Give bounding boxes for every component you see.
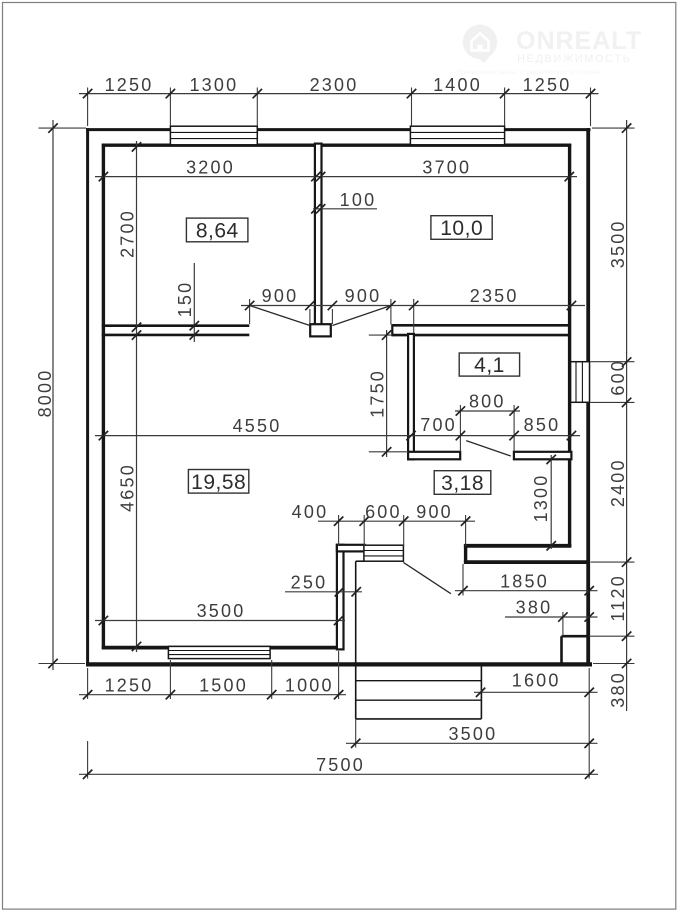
svg-text:1400: 1400 [433, 75, 482, 95]
svg-text:1300: 1300 [189, 75, 238, 95]
dim 3200 ticks [99, 172, 108, 181]
wall: bottom exterior inner line [102, 646, 342, 650]
svg-text:1600: 1600 [512, 671, 561, 691]
dim chain right extension lines [592, 127, 635, 129]
wall: partition below room 10,0 upper line [392, 324, 570, 327]
svg-text:1000: 1000 [285, 676, 334, 696]
dim 380 line [505, 616, 598, 618]
room label 19,58 [188, 470, 248, 494]
dim row 900-900-2350 ticks [245, 301, 254, 310]
dim 3500 inner line [95, 620, 345, 622]
dim 3500 inner ticks [99, 616, 108, 625]
logo ONREALT watermark pin icon [463, 25, 497, 63]
wall: left exterior outer line [86, 128, 89, 666]
dim 1300 line [550, 455, 552, 549]
dim 3500 bottom extension left [355, 719, 357, 748]
wall: cap joining 3,18 bottom walls [464, 544, 467, 564]
dim row 4550-700-850 line [95, 435, 580, 437]
porch step line 1 [356, 680, 482, 682]
dim 8000 extension top [39, 127, 87, 129]
wall: room 4,1 left wall [408, 334, 414, 459]
svg-text:4550: 4550 [233, 416, 282, 436]
door swing room 3,18 [466, 441, 511, 456]
dim 8000 ticks [48, 123, 57, 132]
porch right edge [480, 666, 482, 719]
svg-text:4650: 4650 [118, 463, 138, 512]
dim 1300 ticks [547, 455, 556, 464]
entrance door leaf-frame [364, 545, 404, 561]
dim 3200-3700 line [95, 176, 577, 178]
porch top connector to entrance door [356, 560, 365, 562]
dim 8000 line [52, 120, 54, 670]
svg-text:ONREALT: ONREALT [516, 27, 642, 55]
room label 10,0 [431, 216, 492, 240]
svg-text:2350: 2350 [470, 286, 519, 306]
window W3 right wall [571, 362, 590, 403]
dim 1750 line [386, 330, 388, 457]
dim chain top line [79, 93, 599, 95]
svg-text:1300: 1300 [531, 474, 551, 523]
wall: room 3,18 top wall left of door [408, 452, 460, 460]
svg-text:2700: 2700 [118, 209, 138, 258]
dim chain top extension lines [87, 88, 89, 127]
porch left edge [355, 561, 357, 719]
dim 1750 extensions [369, 334, 393, 336]
dim chain right ticks [622, 123, 631, 132]
wall: right exterior outer line [586, 128, 590, 666]
wall: offset exterior wall below 3,18 [464, 560, 590, 564]
room label 4,1 [459, 353, 519, 376]
svg-text:380: 380 [516, 598, 553, 618]
dim 1600 extension right [588, 668, 590, 779]
dim 380 extension [562, 612, 564, 636]
window W1 top wall left [170, 126, 257, 145]
dim 4650 ticks [132, 330, 141, 339]
svg-text:700: 700 [420, 415, 457, 435]
svg-text:850: 850 [524, 415, 561, 435]
svg-text:1250: 1250 [105, 676, 154, 696]
svg-text:900: 900 [345, 286, 382, 306]
svg-text:3200: 3200 [186, 158, 235, 178]
wall: vestibule right wall of room 19,58 [337, 545, 344, 650]
dim 1600 ticks [476, 688, 485, 697]
dim chain bottom line [79, 694, 346, 696]
svg-text:4,1: 4,1 [474, 354, 505, 377]
wall: top exterior inner line [102, 143, 571, 146]
dim 100 line [313, 208, 377, 210]
svg-text:250: 250 [291, 572, 328, 592]
svg-text:3500: 3500 [448, 724, 497, 744]
dim 3500 bottom ticks [351, 739, 360, 748]
dim 800 extensions [459, 405, 461, 452]
porch step line 2 [356, 699, 482, 701]
svg-text:1850: 1850 [500, 571, 549, 591]
window W2 top wall right [410, 126, 504, 145]
svg-text:600: 600 [608, 359, 628, 396]
svg-text:400: 400 [292, 502, 329, 522]
dim chain top ticks [83, 89, 92, 98]
dim 2700 ticks [132, 142, 141, 151]
svg-text:600: 600 [365, 502, 402, 522]
svg-text:3700: 3700 [422, 158, 471, 178]
svg-text:900: 900 [262, 286, 299, 306]
svg-text:3500: 3500 [608, 219, 628, 268]
room label 3,18 [434, 471, 491, 495]
dim 100 ticks [311, 204, 320, 213]
dim chain bottom extension lines [87, 668, 89, 699]
dim 2700-4650 line [136, 141, 138, 652]
dim 800 line [455, 410, 520, 412]
svg-text:8,64: 8,64 [196, 220, 239, 243]
dim 1850 line [455, 590, 598, 592]
window W4 bottom wall [168, 646, 270, 658]
svg-text:8000: 8000 [35, 369, 55, 418]
dim 150 line [193, 263, 195, 342]
wall: chimney notch vertical [560, 636, 563, 663]
dim 7500 line [79, 773, 598, 775]
wall: vestibule top wall [337, 545, 365, 552]
dim row 900-900-2350 extensions [249, 299, 251, 324]
porch bottom edge [356, 718, 482, 720]
wall: partition between rooms 8,64 and 10,0 [315, 144, 322, 326]
wall: partition below room 10,0 left end cap [391, 324, 393, 336]
svg-text:100: 100 [340, 190, 377, 210]
wall: top exterior outer line [86, 128, 591, 131]
wall: bottom exterior outer line [86, 662, 592, 666]
svg-text:19,58: 19,58 [191, 471, 246, 494]
wall: partition below room 8,64 upper line [102, 324, 250, 327]
svg-text:10,0: 10,0 [440, 217, 483, 240]
svg-text:2400: 2400 [608, 458, 628, 507]
svg-text:7500: 7500 [316, 755, 365, 775]
dim 150 ticks [190, 321, 199, 330]
wall: door pillar at partition foot [310, 324, 331, 336]
wall: chimney notch horizontal [562, 635, 589, 638]
svg-text:1120: 1120 [608, 574, 628, 622]
dim 7500 ticks [83, 770, 92, 779]
svg-text:3500: 3500 [197, 601, 246, 621]
dim chain right line [626, 120, 628, 711]
dim 250 line [285, 591, 362, 593]
svg-text:1500: 1500 [199, 676, 248, 696]
dim 380 ticks [558, 612, 567, 621]
wall: room 3,18 bottom wall [464, 544, 572, 548]
dim row 900-900-2350 line [241, 305, 585, 307]
wall: left exterior inner line [102, 144, 105, 650]
dim 1600 line [474, 691, 598, 693]
svg-text:800: 800 [469, 391, 506, 411]
svg-text:2300: 2300 [310, 75, 359, 95]
dim 1750 ticks [382, 330, 391, 339]
dim row 400-600-900 ticks [334, 517, 343, 526]
svg-text:900: 900 [416, 502, 453, 522]
dim 1850 ticks [458, 586, 467, 595]
dim row 400-600-900 extensions [338, 515, 340, 546]
wall: partition below room 10,0 lower line [392, 334, 570, 337]
svg-text:1750: 1750 [368, 369, 388, 418]
wall: partition below room 8,64 lower line [102, 334, 250, 337]
svg-text:НЕДВИЖИМОСТЬ: НЕДВИЖИМОСТЬ [517, 53, 631, 65]
dim 250 ticks [335, 587, 344, 596]
svg-text:3,18: 3,18 [441, 472, 484, 495]
room label 8,64 [186, 218, 248, 242]
wall: room 3,18 top wall right of door [514, 452, 572, 460]
wall: right exterior inner line [568, 144, 571, 546]
dim chain bottom ticks [83, 690, 92, 699]
dim 8000 extension bottom [39, 663, 86, 665]
svg-text:150: 150 [175, 281, 195, 318]
dim row 400-600-900 line [318, 520, 475, 522]
door swing room 10,0 [332, 306, 391, 326]
dim row 4550-700-850 ticks [99, 431, 108, 440]
dim 7500 extension left [87, 741, 89, 779]
svg-text:1250: 1250 [105, 75, 154, 95]
door swing entrance [403, 562, 451, 593]
door swing room 8,64 [250, 306, 310, 326]
svg-text:1250: 1250 [523, 75, 572, 95]
dim 3500 bottom line [346, 742, 598, 744]
dim 1850 extension [462, 564, 464, 596]
dim 800 ticks [456, 406, 465, 415]
svg-text:380: 380 [608, 671, 628, 708]
